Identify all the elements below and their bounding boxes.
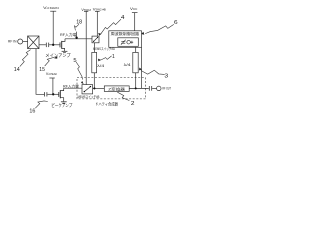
svg-text:VCC: VCC xyxy=(130,7,138,11)
svg-text:5: 5 xyxy=(73,58,76,64)
svg-text:Vd PEAK: Vd PEAK xyxy=(46,72,58,76)
svg-text:16: 16 xyxy=(29,109,35,115)
svg-text:RF入力端: RF入力端 xyxy=(60,32,77,37)
svg-text:MEMSスイッチ#A: MEMSスイッチ#A xyxy=(93,46,115,51)
svg-text:18: 18 xyxy=(76,19,82,25)
svg-text:MEMSスイッチ#B: MEMSスイッチ#B xyxy=(78,94,100,99)
svg-text:λ/4: λ/4 xyxy=(97,64,104,68)
svg-text:6: 6 xyxy=(174,20,178,26)
svg-text:1: 1 xyxy=(112,54,115,60)
svg-text:λ/4: λ/4 xyxy=(124,63,131,67)
svg-text:ドハティ合成器: ドハティ合成器 xyxy=(95,102,118,107)
svg-text:14: 14 xyxy=(14,67,20,73)
svg-text:RF入力端: RF入力端 xyxy=(63,84,79,89)
svg-text:Z変換器: Z変換器 xyxy=(108,86,125,91)
svg-text:RF OUT: RF OUT xyxy=(162,87,171,91)
svg-text:3: 3 xyxy=(164,73,168,79)
svg-text:4: 4 xyxy=(121,15,125,21)
svg-text:RF IN: RF IN xyxy=(8,40,17,44)
svg-text:15: 15 xyxy=(39,67,45,73)
svg-text:周波数制御回路: 周波数制御回路 xyxy=(111,31,140,36)
svg-text:2: 2 xyxy=(131,101,135,107)
svg-text:Vd MAIN: Vd MAIN xyxy=(43,6,59,10)
